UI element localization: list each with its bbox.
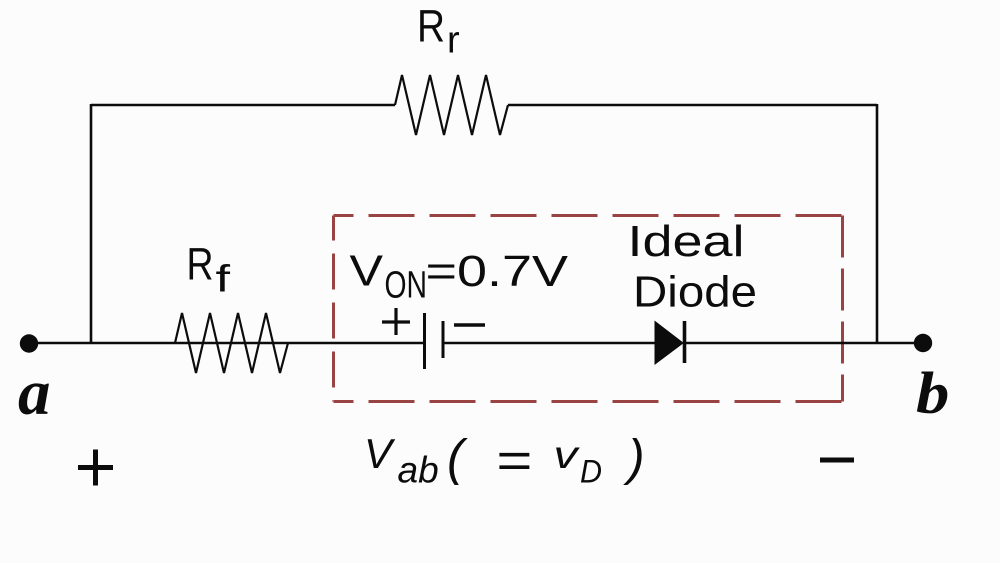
label Rr bbox=[417, 1, 460, 62]
battery VON plus sign bbox=[382, 308, 410, 335]
label Vab ( = vD ) bbox=[364, 430, 645, 491]
node a bbox=[20, 334, 38, 352]
svg-text:ab: ab bbox=[398, 450, 439, 491]
terminal plus sign at a bbox=[78, 450, 113, 486]
label Ideal Diode bbox=[628, 217, 758, 317]
battery VON negative plate bbox=[442, 321, 445, 358]
wire a to battery bbox=[29, 342, 423, 345]
svg-text:b: b bbox=[916, 360, 949, 426]
resistor Rr bbox=[395, 75, 508, 135]
svg-text:=0.7V: =0.7V bbox=[426, 248, 569, 296]
svg-text:R: R bbox=[187, 239, 214, 290]
svg-text:V: V bbox=[364, 430, 396, 477]
ideal diode D1 bbox=[655, 321, 685, 364]
node b bbox=[914, 334, 932, 352]
label b bbox=[916, 360, 949, 426]
battery VON minus sign bbox=[454, 323, 485, 327]
svg-text:D: D bbox=[580, 454, 602, 490]
svg-text:R: R bbox=[417, 1, 445, 52]
svg-text:r: r bbox=[447, 20, 460, 62]
terminal minus sign at b bbox=[820, 458, 854, 463]
svg-text:=: = bbox=[496, 433, 532, 489]
wire left vertical bbox=[90, 104, 93, 343]
svg-text:V: V bbox=[350, 248, 384, 296]
label VON=0.7V bbox=[350, 248, 569, 307]
wire top left horizontal bbox=[91, 104, 395, 107]
diode model dashed box bbox=[334, 216, 843, 402]
label a bbox=[18, 357, 51, 429]
resistor Rf bbox=[175, 313, 288, 373]
svg-text:Diode: Diode bbox=[633, 268, 757, 317]
svg-text:ON: ON bbox=[385, 265, 428, 307]
svg-text:f: f bbox=[216, 259, 231, 301]
wire top right horizontal bbox=[508, 104, 877, 107]
wire battery to diode bbox=[444, 342, 655, 345]
wire diode to b bbox=[684, 342, 923, 345]
svg-text:v: v bbox=[554, 434, 581, 477]
wire right vertical bbox=[876, 104, 879, 343]
battery VON positive plate bbox=[423, 313, 426, 369]
svg-text:a: a bbox=[18, 357, 51, 429]
svg-text:Ideal: Ideal bbox=[628, 217, 745, 266]
label Rf bbox=[187, 239, 231, 301]
